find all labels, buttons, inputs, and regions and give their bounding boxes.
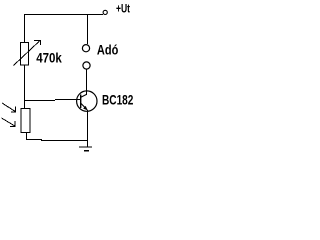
light arrow 2 bbox=[2, 118, 16, 127]
svg-text:470k: 470k bbox=[36, 51, 62, 66]
resistor R1 trimmer arrow bbox=[14, 40, 42, 66]
terminal Ado upper bbox=[82, 45, 89, 52]
wire below LDR bbox=[26, 133, 27, 140]
wire bottom rail bbox=[26, 139, 42, 140]
svg-text:+Ut: +Ut bbox=[116, 2, 130, 16]
node +Ut terminal bbox=[103, 10, 107, 14]
wire collector lead bbox=[86, 69, 87, 95]
wire emitter lead bbox=[87, 110, 88, 147]
resistor R1 body bbox=[21, 43, 29, 66]
svg-text:BC182: BC182 bbox=[102, 93, 134, 108]
ground bbox=[79, 147, 92, 152]
light arrow 1 bbox=[2, 103, 16, 113]
wire base bbox=[25, 100, 55, 101]
wire left vertical upper bbox=[24, 14, 25, 42]
wire left vertical middle bbox=[24, 65, 25, 101]
wire Ado drop from top rail bbox=[87, 14, 88, 44]
wire left vertical to LDR bbox=[24, 100, 25, 109]
svg-text:Adó: Adó bbox=[97, 43, 118, 58]
wire top rail bbox=[24, 14, 103, 15]
transistor Q1 bbox=[77, 91, 97, 111]
terminal Ado lower bbox=[83, 62, 90, 69]
photoresistor LDR body bbox=[21, 109, 30, 133]
